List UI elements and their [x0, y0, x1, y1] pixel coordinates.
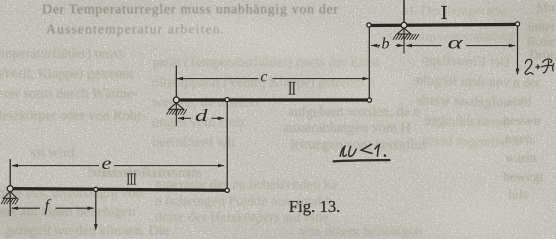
dimension e — [12, 165, 224, 167]
svg-text:II: II — [288, 79, 295, 100]
formula u < 1 underlined (handwritten) — [334, 144, 390, 161]
svg-text:M. Der Temperatur: M. Der Temperatur — [402, 3, 507, 18]
svg-text:unter: unter — [528, 19, 556, 34]
support triangle beam III — [3, 192, 17, 199]
load arrow below beam III — [95, 192, 97, 228]
svg-text:ausstrahlungen vom Heizkörper: ausstrahlungen vom Heizkörper oder von R… — [0, 108, 146, 124]
svg-text:geregelt werden können. Die: geregelt werden können. Die — [5, 223, 169, 239]
svg-text:Standorte des Heizkörpers auf: Standorte des Heizkörpers auf einen beli… — [0, 204, 135, 220]
dimension c — [177, 78, 369, 80]
svg-text:e: e — [102, 153, 112, 173]
label b — [378, 45, 380, 49]
svg-text:d: d — [195, 106, 209, 125]
svg-text:aufgebaut werden, da ersterer: aufgebaut werden, da ersterer sonst durc… — [0, 86, 138, 102]
svg-text:α: α — [448, 33, 464, 53]
svg-text:b: b — [382, 36, 390, 53]
svg-text:Der Einstellapparat (Temperatu: Der Einstellapparat (Temperaturfühler) m… — [0, 46, 124, 62]
dimension a — [406, 45, 515, 47]
support hatching beam II — [167, 109, 187, 115]
svg-text:Druck: Druck — [529, 47, 556, 62]
hinge circle beam I left end — [367, 23, 371, 27]
beam I — [369, 24, 518, 25]
support pivot circle beam I — [401, 22, 407, 28]
beam II — [176, 98, 369, 101]
joint circle on beam III at distance f — [94, 187, 98, 191]
hinge circle beam II right end — [367, 98, 371, 102]
svg-text:n der: n der — [513, 75, 541, 90]
support stand above beam II — [175, 66, 177, 98]
darker front-page text lines top-left — [42, 2, 338, 37]
dimension f — [12, 207, 94, 209]
dimension d — [178, 117, 224, 119]
hinge circle beam III right end — [225, 188, 229, 192]
svg-text:I: I — [441, 2, 448, 24]
svg-text:Mon-: Mon- — [536, 0, 556, 15]
dimension b — [371, 45, 403, 47]
svg-text:c: c — [261, 68, 268, 85]
support extension line below beam I — [403, 28, 405, 53]
support stand above beam III — [9, 159, 11, 186]
beam III — [10, 189, 227, 191]
support stand above beam I — [403, 0, 405, 22]
mirrored show-through block top-right — [412, 53, 511, 151]
link from beam I left end down to beam II right end — [368, 27, 370, 98]
support hatching beam I — [393, 34, 419, 40]
svg-text:aufgebaut werde: aufgebaut werde — [415, 93, 509, 111]
paper mottling — [460, 0, 556, 80]
svg-text:Fig. 13.: Fig. 13. — [289, 197, 341, 216]
svg-text:Aussentemperatur: Aussentemperatur — [416, 29, 515, 44]
svg-text:entil: entil — [508, 94, 532, 109]
svg-text:beeinflusst wir: beeinflusst wir — [152, 135, 236, 151]
svg-text:ausstrahlungen vom H: ausstrahlungen vom H — [283, 120, 411, 136]
support triangle beam I — [397, 28, 411, 34]
support pivot circle beam II — [173, 97, 179, 103]
svg-text:Der Einstellapp: Der Einstellapp — [422, 53, 511, 71]
svg-text:von einem beliebigen: von einem beliebigen — [300, 224, 422, 239]
right margin column fragments — [503, 0, 556, 203]
svg-text:III: III — [127, 169, 137, 188]
support extension line below beam III — [9, 192, 11, 216]
support extension line below beam II — [175, 103, 177, 126]
support pivot circle beam III — [7, 186, 13, 192]
svg-text:von dem Regulierapparat (Venti: von dem Regulierapparat (Ventil, Klappe)… — [0, 66, 133, 82]
svg-text:sst wird.: sst wird. — [30, 145, 78, 161]
link from beam II joint down to beam III right end — [226, 102, 228, 189]
load arrow Q+F at beam I right end — [517, 26, 519, 71]
support hatching beam III — [1, 199, 19, 205]
svg-text:von dem Regulie: von dem Regulie — [413, 73, 510, 91]
joint circle on beam II at distance d — [225, 98, 229, 102]
label Q+F (script) — [525, 59, 554, 74]
hinge circle beam I right end — [515, 22, 519, 26]
support triangle beam II — [169, 103, 184, 110]
